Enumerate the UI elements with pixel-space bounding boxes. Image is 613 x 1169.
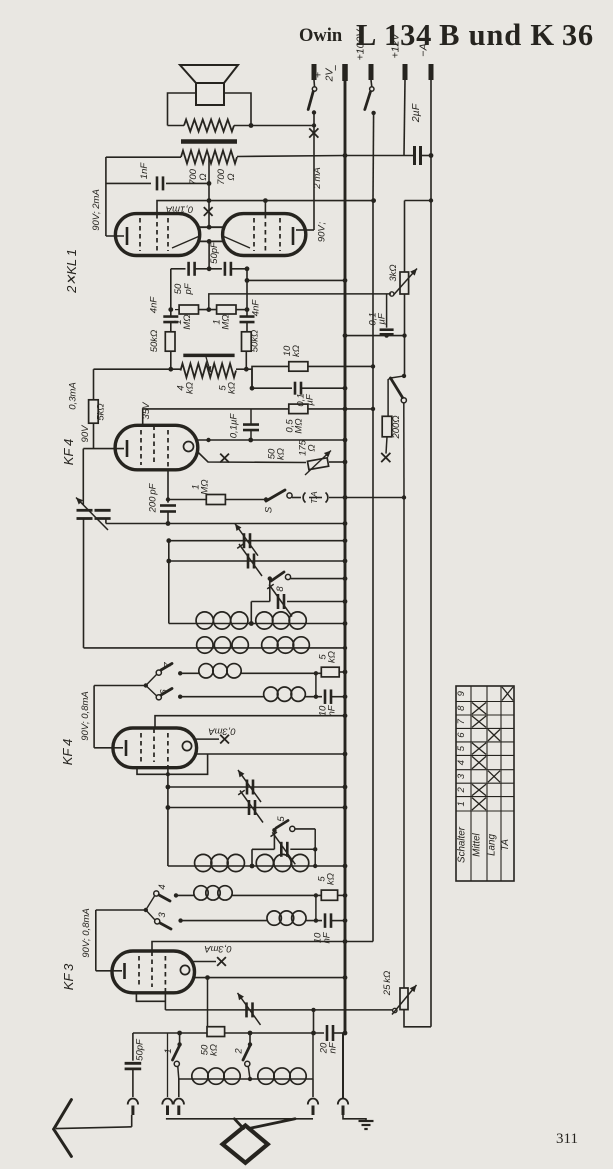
svg-text:kΩ: kΩ [185, 382, 196, 394]
svg-text:KF 3: KF 3 [61, 963, 76, 990]
svg-text:kΩ: kΩ [326, 873, 337, 885]
svg-text:1nF: 1nF [139, 162, 150, 180]
svg-text:pF: pF [183, 282, 194, 295]
svg-text:0,1mA: 0,1mA [166, 204, 193, 215]
svg-text:2: 2 [234, 1048, 245, 1055]
svg-text:6: 6 [159, 689, 170, 695]
svg-text:MΩ: MΩ [200, 479, 211, 494]
svg-text:+100V: +100V [355, 29, 367, 61]
svg-text:50pF: 50pF [135, 1038, 146, 1061]
svg-text:S: S [264, 506, 275, 513]
svg-text:Lang: Lang [487, 834, 498, 856]
svg-text:5: 5 [456, 745, 467, 751]
svg-text:Mittel: Mittel [472, 832, 483, 856]
svg-text:1: 1 [456, 801, 467, 806]
svg-text:4nF: 4nF [149, 296, 160, 314]
svg-text:kΩ: kΩ [209, 1044, 220, 1056]
svg-text:Ω: Ω [307, 444, 318, 451]
svg-text:kΩ: kΩ [327, 651, 338, 663]
svg-text:50kΩ: 50kΩ [250, 330, 261, 353]
svg-text:90V: 90V [80, 424, 91, 443]
svg-text:90V; 2mA: 90V; 2mA [91, 189, 102, 231]
svg-text:0,3mA: 0,3mA [68, 382, 79, 409]
svg-text:4: 4 [456, 760, 467, 765]
svg-text:0,3mA: 0,3mA [208, 726, 235, 737]
svg-text:1: 1 [163, 1048, 174, 1053]
svg-text:TA: TA [500, 839, 511, 851]
svg-text:5: 5 [276, 816, 287, 822]
svg-text:4: 4 [157, 884, 168, 889]
svg-text:90V; 0,8mA: 90V; 0,8mA [81, 908, 92, 957]
svg-text:2 mA: 2 mA [312, 167, 323, 189]
svg-text:9: 9 [456, 690, 467, 696]
svg-text:MΩ: MΩ [294, 418, 305, 433]
svg-text:µF: µF [377, 312, 388, 324]
svg-text:2µF: 2µF [410, 103, 422, 123]
svg-text:2✕KL 1: 2✕KL 1 [64, 249, 79, 294]
svg-text:200 pF: 200 pF [148, 482, 159, 513]
svg-text:KF 4: KF 4 [61, 439, 76, 465]
svg-text:5kΩ: 5kΩ [96, 403, 107, 420]
svg-text:MΩ: MΩ [221, 314, 232, 329]
svg-text:KF 4: KF 4 [60, 739, 75, 765]
svg-text:kΩ: kΩ [291, 345, 302, 357]
svg-text:311: 311 [556, 1131, 578, 1147]
svg-text:6: 6 [456, 732, 467, 738]
svg-text:3kΩ: 3kΩ [388, 264, 399, 281]
svg-text:35V: 35V [141, 401, 152, 420]
svg-text:90V ;: 90V ; [317, 221, 328, 242]
svg-text:Schalter: Schalter [457, 826, 468, 863]
svg-text:kΩ: kΩ [227, 382, 238, 394]
svg-text:2: 2 [456, 787, 467, 794]
svg-text:MΩ: MΩ [182, 314, 193, 329]
svg-text:50kΩ: 50kΩ [149, 330, 160, 353]
svg-text:0,3mA: 0,3mA [204, 943, 231, 954]
svg-text:0,1µF: 0,1µF [229, 413, 240, 439]
svg-text:kΩ: kΩ [276, 448, 287, 460]
svg-text:200Ω: 200Ω [391, 415, 402, 439]
svg-text:nF: nF [327, 704, 338, 716]
svg-text:90V; 0,8mA: 90V; 0,8mA [80, 691, 91, 740]
svg-text:T.A: T.A [309, 491, 319, 504]
svg-text:−: − [330, 64, 342, 71]
svg-text:Ω: Ω [226, 173, 237, 180]
svg-text:Owin: Owin [299, 26, 343, 46]
svg-text:nF: nF [328, 1041, 339, 1053]
svg-text:7: 7 [163, 662, 174, 668]
svg-text:25 kΩ: 25 kΩ [382, 971, 393, 996]
svg-text:4nF: 4nF [251, 299, 262, 317]
svg-text:50pF: 50pF [209, 241, 220, 264]
svg-text:8: 8 [275, 586, 286, 592]
svg-text:8: 8 [456, 705, 467, 711]
svg-text:−A: −A [418, 43, 430, 56]
svg-text:3: 3 [456, 773, 467, 779]
svg-text:3: 3 [157, 912, 168, 918]
svg-text:+12V: +12V [390, 33, 402, 59]
svg-text:Ω: Ω [198, 173, 209, 180]
svg-text:7: 7 [456, 718, 467, 724]
